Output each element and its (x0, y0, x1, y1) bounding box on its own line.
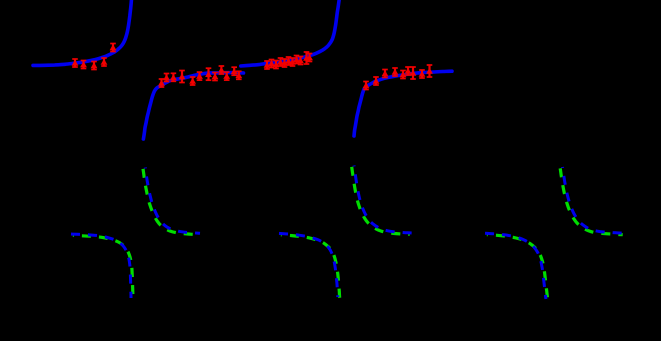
bottom branch 3 right blue dashed curve (563, 167, 626, 233)
bottom branch 1 left blue dashed curve (71, 234, 131, 298)
red data points with error bars (72, 44, 433, 90)
bottom branch 3 left green dashed curve (487, 235, 548, 301)
bottom branch 2 left blue dashed curve (279, 233, 338, 297)
top blue curve segment 3 (rising to second asymptote) (241, 0, 340, 66)
bottom branch 1 right blue dashed curve (145, 168, 200, 234)
top blue curve segment 4 (branch after second asymptote) (354, 71, 452, 136)
bottom branch 1 right green dashed curve (143, 169, 198, 235)
bottom branch 2 right blue dashed curve (354, 166, 412, 234)
bottom branch 1 left green dashed curve (73, 235, 133, 299)
bottom branch 2 left green dashed curve (281, 235, 340, 299)
top blue curve segment 2 (branch after first asymptote) (143, 73, 243, 139)
bottom branch 3 right green dashed curve (560, 168, 623, 234)
top blue curve segment 1 (rising branch, left) (33, 0, 132, 65)
bottom branch 3 left blue dashed curve (485, 233, 546, 299)
bottom branch 2 right green dashed curve (352, 167, 410, 235)
